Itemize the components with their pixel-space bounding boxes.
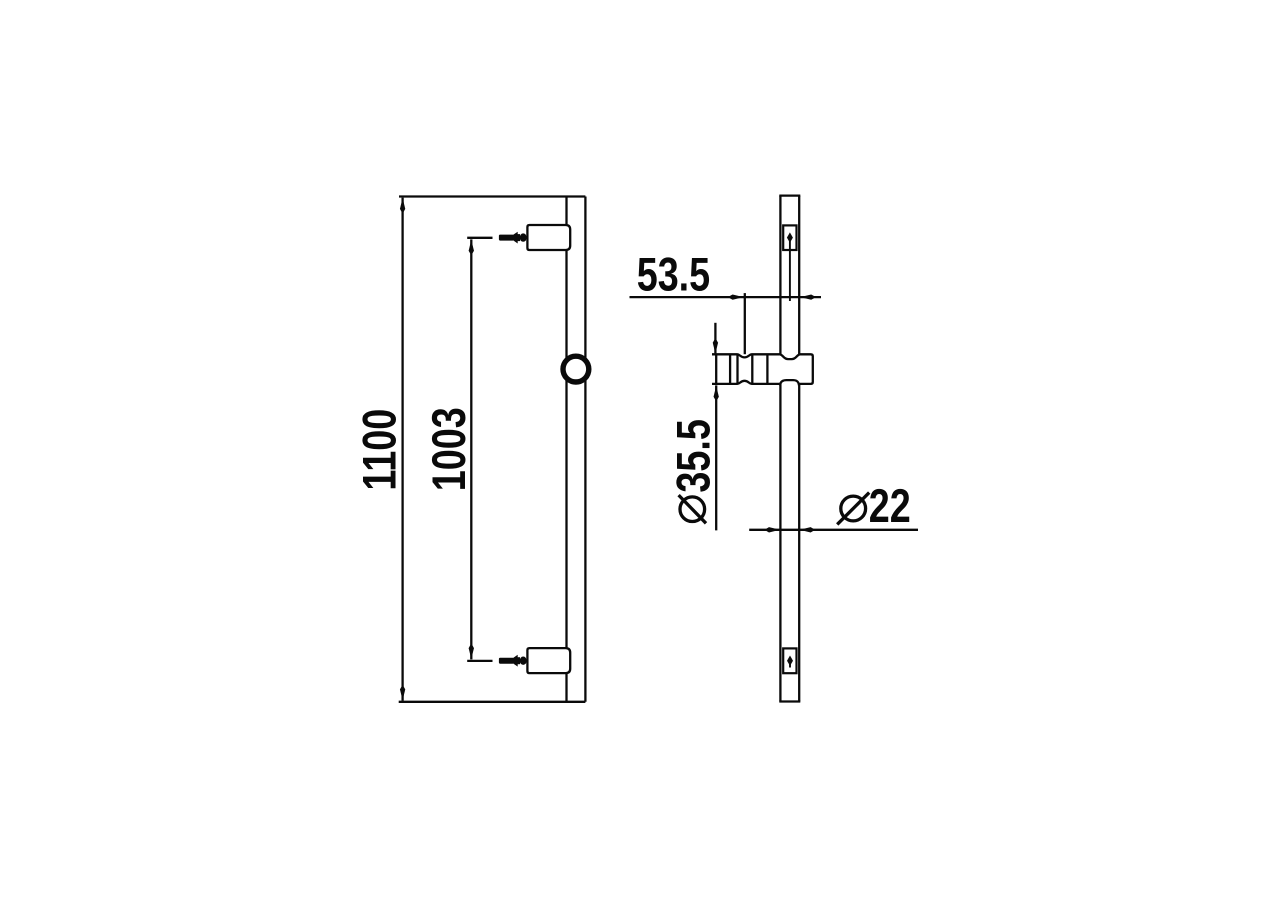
wire: rail top cap / top extension line xyxy=(399,195,585,197)
bottom escutcheon window xyxy=(783,648,796,673)
dimension text d35.5 (rotated) xyxy=(668,419,721,523)
wire: rail left outline xyxy=(565,197,567,702)
svg-text:1003: 1003 xyxy=(423,407,476,491)
dimension text d22 xyxy=(837,480,911,533)
holder top edge with waist dip and rail notch xyxy=(712,354,813,384)
dimension 1100: dimension line with arrows xyxy=(401,198,403,701)
bottom keyhole diamond xyxy=(787,656,793,666)
dimension 1003: dimension line xyxy=(470,239,472,659)
dimension d22 xyxy=(749,529,918,531)
dimension text 53.5 xyxy=(637,248,710,301)
wire: rail bottom cap xyxy=(779,700,800,702)
top keyhole diamond xyxy=(787,232,793,242)
top fixing screw xyxy=(499,232,527,244)
wire: rail top cap xyxy=(779,194,800,196)
bottom wall bracket xyxy=(527,648,570,673)
slider holder body (white fill erases rail behind) xyxy=(713,355,811,383)
top wall bracket xyxy=(527,225,570,250)
wire: rail right outline xyxy=(584,197,586,702)
wire: rail left outline xyxy=(779,196,781,702)
holder left edge xyxy=(715,354,717,384)
slider knob (circle) xyxy=(563,356,589,382)
top escutcheon window xyxy=(783,225,796,250)
bottom fixing screw xyxy=(499,655,527,667)
svg-text:1100: 1100 xyxy=(354,409,407,491)
wire: rail right outline xyxy=(798,196,800,702)
dimension d35.5 xyxy=(714,323,717,531)
holder rib lines xyxy=(729,354,731,384)
dimension line xyxy=(630,296,822,298)
dimension 53.5 xyxy=(630,293,822,354)
svg-text:22: 22 xyxy=(869,480,911,533)
dimension 1003: ticks xyxy=(467,238,492,661)
centre line from top diamond down to 53.5 dimension xyxy=(789,238,791,301)
extension line (front face of holder) xyxy=(744,293,746,354)
svg-text:35.5: 35.5 xyxy=(668,419,721,492)
wire: rail bottom cap / bottom extension line xyxy=(399,701,586,703)
rail tunnel arch at holder bottom xyxy=(780,380,799,385)
svg-text:53.5: 53.5 xyxy=(637,248,710,301)
holder bottom edge left portion with waist rise xyxy=(712,381,779,384)
